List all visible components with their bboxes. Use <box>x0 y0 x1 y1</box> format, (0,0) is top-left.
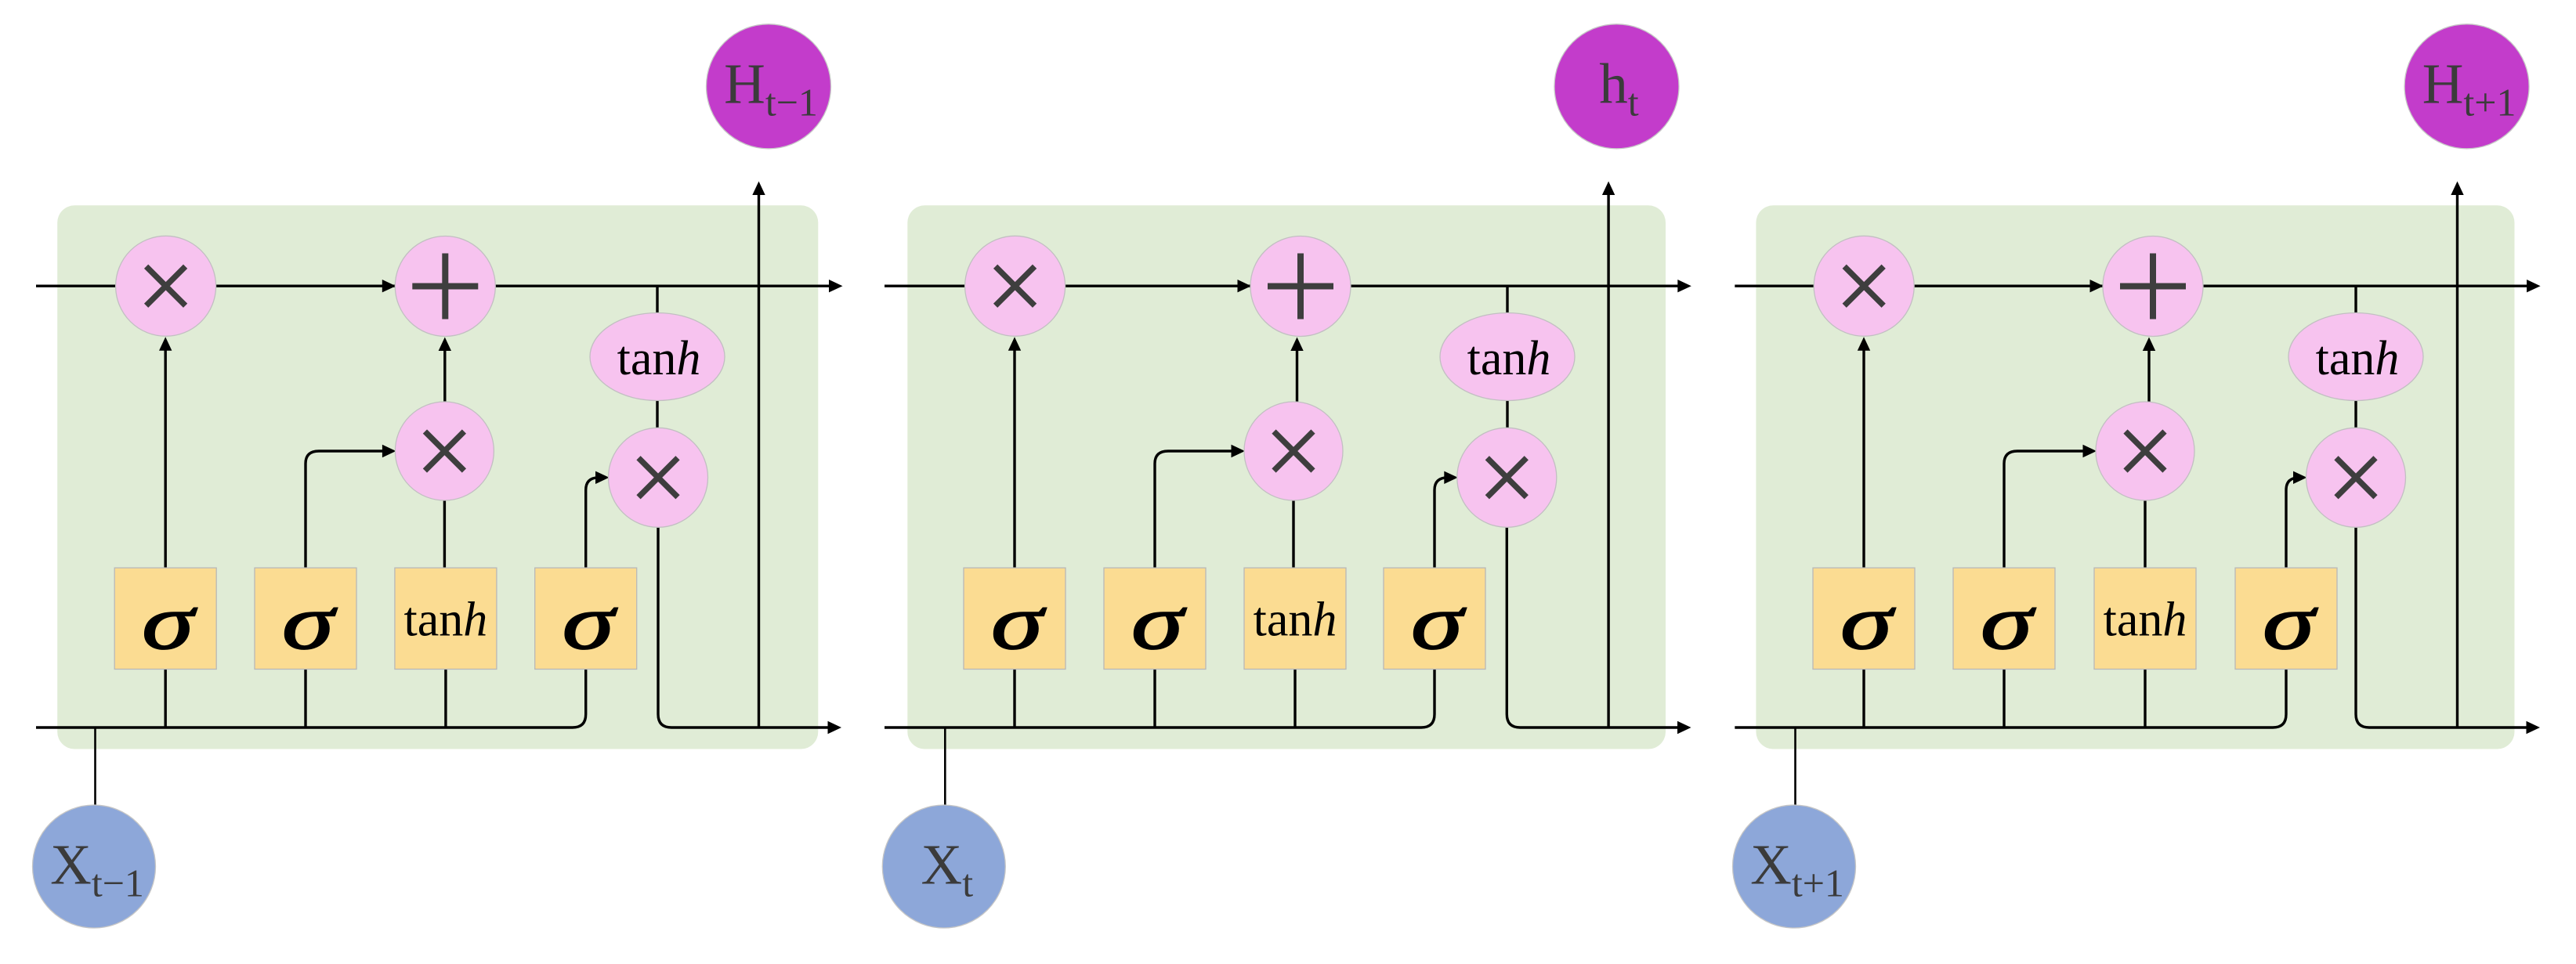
multiply node xc1 (forget gating) cell 2 <box>965 236 1065 336</box>
LSTM cell 1 background <box>57 205 818 749</box>
wire: input X stem (cell 1) <box>94 728 96 808</box>
svg-text:σ: σ <box>282 579 338 666</box>
wire: input line with branch up through gate o (cell 2) <box>885 471 1458 728</box>
node Xt−1 input cell 1 <box>33 805 156 928</box>
wire: gate f output up to xc1 (cell 1) <box>159 337 172 569</box>
LSTM cell 2 background <box>907 205 1666 749</box>
gate box tanh g cell 3 <box>2094 568 2196 669</box>
wire: input branch to candidate tanh (cell 3) <box>2144 668 2146 728</box>
wire: input line with branch up through gate o (cell 3) <box>1735 471 2306 728</box>
tanh ellipse node cell 1 <box>590 313 725 401</box>
add node plus cell 3 <box>2103 236 2203 337</box>
gate box sigma f cell 1 <box>114 568 216 669</box>
wire: gate i output into xc2 (cell 1) <box>306 445 396 569</box>
add node plus cell 1 <box>395 236 495 337</box>
wire: input branch to gate i (cell 2) <box>1153 668 1156 728</box>
wire: cell-state line C (cell 3) <box>1735 280 2540 292</box>
add node plus cell 2 <box>1250 236 1351 337</box>
wire: xc2 output up into plus (cell 3) <box>2143 338 2155 404</box>
svg-text:tanh: tanh <box>2104 594 2187 647</box>
wire: input branch to gate f (cell 3) <box>1862 668 1865 728</box>
svg-text:σ: σ <box>1840 579 1896 666</box>
gate box sigma i cell 1 <box>255 568 356 669</box>
gate box sigma i cell 3 <box>1953 568 2055 669</box>
multiply node xc2 (input gating) cell 1 <box>395 402 494 500</box>
multiply node xc2 (input gating) cell 2 <box>1244 402 1343 500</box>
multiply node xc3 (output gating) cell 2 <box>1457 428 1557 527</box>
svg-text:tanh: tanh <box>2316 332 2400 385</box>
wire: cell state branch down into tanh ellipse (cell 2) <box>1506 286 1508 316</box>
wire: input branch to candidate tanh (cell 2) <box>1293 668 1296 728</box>
svg-text:tanh: tanh <box>1467 332 1551 385</box>
wire: input line with branch up through gate o (cell 1) <box>36 471 610 728</box>
gate box tanh g cell 1 <box>395 568 497 669</box>
wire: input X stem (cell 3) <box>1794 728 1796 808</box>
wire: gate i output into xc2 (cell 3) <box>2004 445 2097 569</box>
gate box tanh g cell 2 <box>1244 568 1346 669</box>
wire: cell state branch down into tanh ellipse (cell 3) <box>2354 286 2357 316</box>
wire: input branch to gate f (cell 2) <box>1013 668 1015 728</box>
svg-text:σ: σ <box>2263 579 2318 666</box>
wire: cell state branch down into tanh ellipse (cell 1) <box>656 286 658 316</box>
svg-text:σ: σ <box>1411 579 1467 666</box>
wire: candidate tanh up to xc2 (cell 2) <box>1292 499 1294 569</box>
svg-text:σ: σ <box>1131 579 1187 666</box>
node Xt input cell 2 <box>882 805 1005 928</box>
wire: input branch to gate i (cell 3) <box>2003 668 2005 728</box>
wire: output of gate xc3 down to h line (cell 1) <box>658 525 841 734</box>
LSTM cell 3 background <box>1756 205 2514 749</box>
wire: output of gate xc3 down to h line (cell 2) <box>1507 525 1691 734</box>
wire: input branch to candidate tanh (cell 1) <box>444 668 447 728</box>
svg-text:tanh: tanh <box>1254 594 1337 647</box>
tanh ellipse node cell 2 <box>1440 313 1575 401</box>
wire: gate i output into xc2 (cell 2) <box>1155 445 1245 569</box>
svg-text:σ: σ <box>991 579 1047 666</box>
wire: output of gate xc3 down to h line (cell 3) <box>2356 525 2540 734</box>
wire: tanh ellipse down into xc3 (cell 3) <box>2354 398 2357 431</box>
multiply node xc1 (forget gating) cell 3 <box>1814 236 1914 336</box>
svg-text:σ: σ <box>563 579 618 666</box>
gate box sigma f cell 2 <box>964 568 1065 669</box>
gate box sigma i cell 2 <box>1104 568 1206 669</box>
wire: hidden state output up to H (cell 3) <box>2451 182 2463 728</box>
wire: candidate tanh up to xc2 (cell 3) <box>2144 499 2146 569</box>
wire: cell-state line C (cell 2) <box>885 280 1691 292</box>
svg-text:tanh: tanh <box>617 332 701 385</box>
gate box sigma f cell 3 <box>1813 568 1915 669</box>
svg-text:tanh: tanh <box>404 594 488 647</box>
wire: cell-state line C (cell 1) <box>36 280 843 292</box>
wire: hidden state output up to h (cell 2) <box>1602 182 1615 728</box>
wire: candidate tanh up to xc2 (cell 1) <box>443 499 446 569</box>
wire: tanh ellipse down into xc3 (cell 1) <box>656 398 658 431</box>
wire: xc2 output up into plus (cell 1) <box>439 338 451 404</box>
gate box sigma o cell 2 <box>1384 568 1485 669</box>
multiply node xc1 (forget gating) cell 1 <box>116 236 216 336</box>
node Ht−1 hidden state output cell 1 <box>707 24 831 149</box>
wire: gate f output up to xc1 (cell 3) <box>1858 337 1870 569</box>
svg-text:σ: σ <box>142 579 197 666</box>
multiply node xc3 (output gating) cell 1 <box>609 428 708 527</box>
node Ht+1 hidden state output cell 3 <box>2404 24 2529 149</box>
wire: input X stem (cell 2) <box>944 728 946 808</box>
multiply node xc2 (input gating) cell 3 <box>2096 402 2194 500</box>
node Xt+1 input cell 3 <box>1733 805 1856 928</box>
wire: xc2 output up into plus (cell 2) <box>1290 338 1303 404</box>
tanh ellipse node cell 3 <box>2288 313 2423 401</box>
gate box sigma o cell 1 <box>535 568 637 669</box>
wire: tanh ellipse down into xc3 (cell 2) <box>1506 398 1508 431</box>
wire: input branch to gate f (cell 1) <box>164 668 166 728</box>
wire: hidden state output up to H (cell 1) <box>752 182 765 728</box>
svg-text:σ: σ <box>1981 579 2036 666</box>
multiply node xc3 (output gating) cell 3 <box>2306 428 2406 527</box>
gate box sigma o cell 3 <box>2235 568 2337 669</box>
wire: input branch to gate i (cell 1) <box>304 668 306 728</box>
wire: gate f output up to xc1 (cell 2) <box>1008 337 1021 569</box>
node ht hidden state output cell 2 <box>1554 24 1679 149</box>
